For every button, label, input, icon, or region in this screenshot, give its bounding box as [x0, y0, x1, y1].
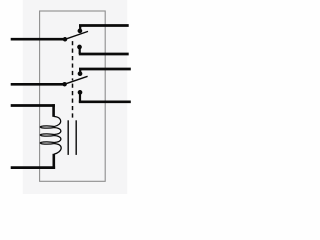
- node pole pivot S2: [62, 82, 67, 87]
- node lower contact S2: [78, 90, 83, 95]
- canvas panel: [23, 0, 128, 194]
- switch lever S1: [65, 31, 88, 39]
- wire stub upper contact S2: [79, 69, 81, 74]
- node lower contact S1: [77, 45, 82, 50]
- wire coil top lead (horizontal): [11, 104, 55, 107]
- relay body outline: [40, 11, 106, 181]
- relay coil K1: [40, 116, 61, 154]
- switch lever S2: [65, 76, 88, 84]
- wire coil bottom lead (horizontal): [11, 166, 55, 169]
- wire coil top lead (vertical): [52, 104, 55, 117]
- node upper contact S2: [78, 71, 83, 76]
- core bar left: [67, 120, 69, 155]
- mechanical linkage lower (dashed): [72, 84, 74, 118]
- wire pole 1 (left lead of switch S1): [11, 38, 65, 41]
- wire stub lower contact S1: [79, 47, 81, 54]
- node upper contact S1: [78, 29, 83, 34]
- node pole pivot S1: [63, 37, 68, 42]
- core bar right: [75, 120, 77, 155]
- wire stub lower contact S2: [79, 92, 81, 101]
- wire upper throw S1: [79, 24, 129, 27]
- wire coil bottom lead (vertical): [52, 154, 55, 169]
- wire pole 2 (left lead of switch S2): [11, 83, 65, 86]
- wire upper throw S2: [79, 68, 131, 71]
- wire lower throw S1: [79, 53, 129, 56]
- wire lower throw S2: [79, 100, 131, 103]
- wire stub upper contact S1: [79, 26, 81, 31]
- mechanical linkage upper (dashed): [72, 41, 74, 80]
